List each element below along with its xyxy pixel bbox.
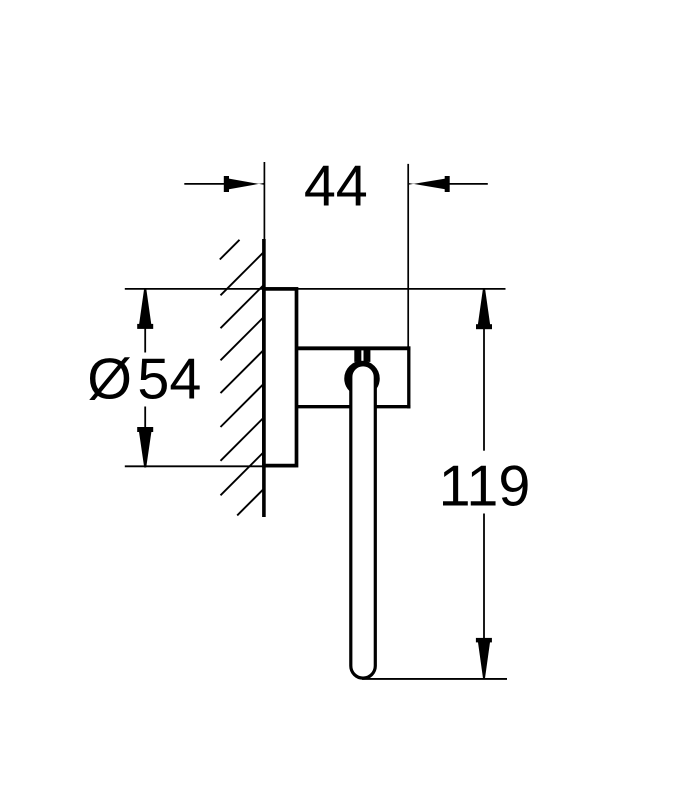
pivot stem slot — [361, 350, 363, 360]
right dimension 119: top arrow flange — [476, 324, 492, 329]
right dimension 119: bottom arrow flange — [476, 638, 492, 643]
wall hatching — [220, 240, 264, 516]
top dimension 44: right tail line — [450, 183, 488, 185]
hanging loop — [351, 365, 376, 678]
extension line right (front of arm) — [407, 164, 409, 347]
left dimension D54: top arrowhead — [139, 288, 152, 326]
right dimension 119: top arrowhead — [478, 288, 491, 326]
wall plate (escutcheon) — [264, 289, 297, 466]
pivot ball — [347, 364, 377, 394]
top dimension 44: left arrow flange — [224, 176, 229, 192]
holder arm: bottom line — [297, 405, 411, 408]
right dimension 119: dim line upper segment — [483, 329, 485, 451]
extension line left (wall face) — [263, 162, 265, 240]
right dimension 119: dim line lower segment — [483, 514, 485, 639]
svg-text:Ø: Ø — [87, 348, 132, 412]
svg-text:54: 54 — [137, 348, 201, 412]
svg-text:44: 44 — [304, 155, 368, 219]
left dimension D54: dim line upper segment — [144, 327, 146, 353]
top dimension 44: right arrowhead — [408, 179, 446, 190]
holder arm: front (right) edge — [407, 346, 410, 408]
holder arm: top line — [297, 346, 411, 350]
left dimension D54: top arrow flange — [137, 324, 153, 329]
top dimension 44: left arrowhead — [229, 179, 265, 190]
svg-text:119: 119 — [439, 454, 531, 518]
top dimension 44: right arrow flange — [445, 176, 450, 192]
shared horizontal extension line at top of plate — [125, 288, 506, 290]
left dimension D54: bottom arrow flange — [137, 427, 153, 432]
pivot stem — [354, 349, 370, 362]
left dimension D54: dim line lower segment — [144, 407, 146, 430]
horizontal extension line at bottom of plate — [125, 465, 296, 467]
right dimension 119: bottom arrowhead — [478, 640, 491, 679]
left dimension D54: bottom arrowhead — [139, 431, 152, 468]
wall line — [262, 239, 266, 517]
right dimension 119: bottom extension line — [362, 678, 507, 680]
top dimension 44: left tail line — [184, 183, 227, 185]
